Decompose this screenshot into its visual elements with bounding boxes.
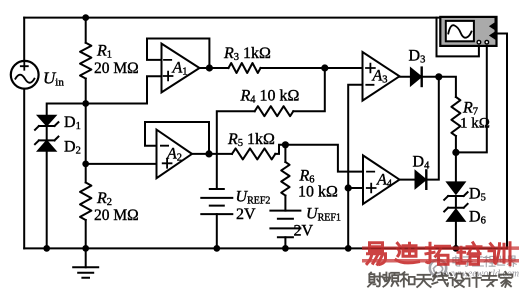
svg-text:R5 1kΩ: R5 1kΩ bbox=[227, 131, 275, 149]
svg-text:R1: R1 bbox=[96, 43, 112, 61]
svg-text:UREF2: UREF2 bbox=[236, 189, 271, 207]
svg-text:20 MΩ: 20 MΩ bbox=[94, 60, 139, 77]
svg-text:D4: D4 bbox=[413, 154, 431, 172]
svg-text:A1: A1 bbox=[172, 60, 188, 78]
svg-text:D6: D6 bbox=[469, 209, 486, 227]
svg-text:10 kΩ: 10 kΩ bbox=[298, 184, 338, 201]
svg-text:Uin: Uin bbox=[43, 69, 64, 89]
svg-text:UREF1: UREF1 bbox=[306, 206, 341, 224]
svg-text:D1: D1 bbox=[64, 114, 81, 132]
svg-text:1 kΩ: 1 kΩ bbox=[460, 116, 490, 132]
svg-text:A3: A3 bbox=[372, 68, 388, 86]
svg-text:20 MΩ: 20 MΩ bbox=[94, 207, 139, 224]
svg-text:2V: 2V bbox=[236, 206, 256, 223]
svg-text:A2: A2 bbox=[166, 146, 182, 164]
svg-text:D3: D3 bbox=[409, 48, 426, 66]
svg-text:D5: D5 bbox=[469, 186, 486, 204]
svg-text:D2: D2 bbox=[64, 139, 81, 157]
svg-text:R3 1kΩ: R3 1kΩ bbox=[223, 45, 271, 63]
svg-text:2V: 2V bbox=[294, 223, 314, 240]
svg-text:R2: R2 bbox=[96, 190, 112, 208]
svg-text:R4 10 kΩ: R4 10 kΩ bbox=[240, 88, 300, 106]
